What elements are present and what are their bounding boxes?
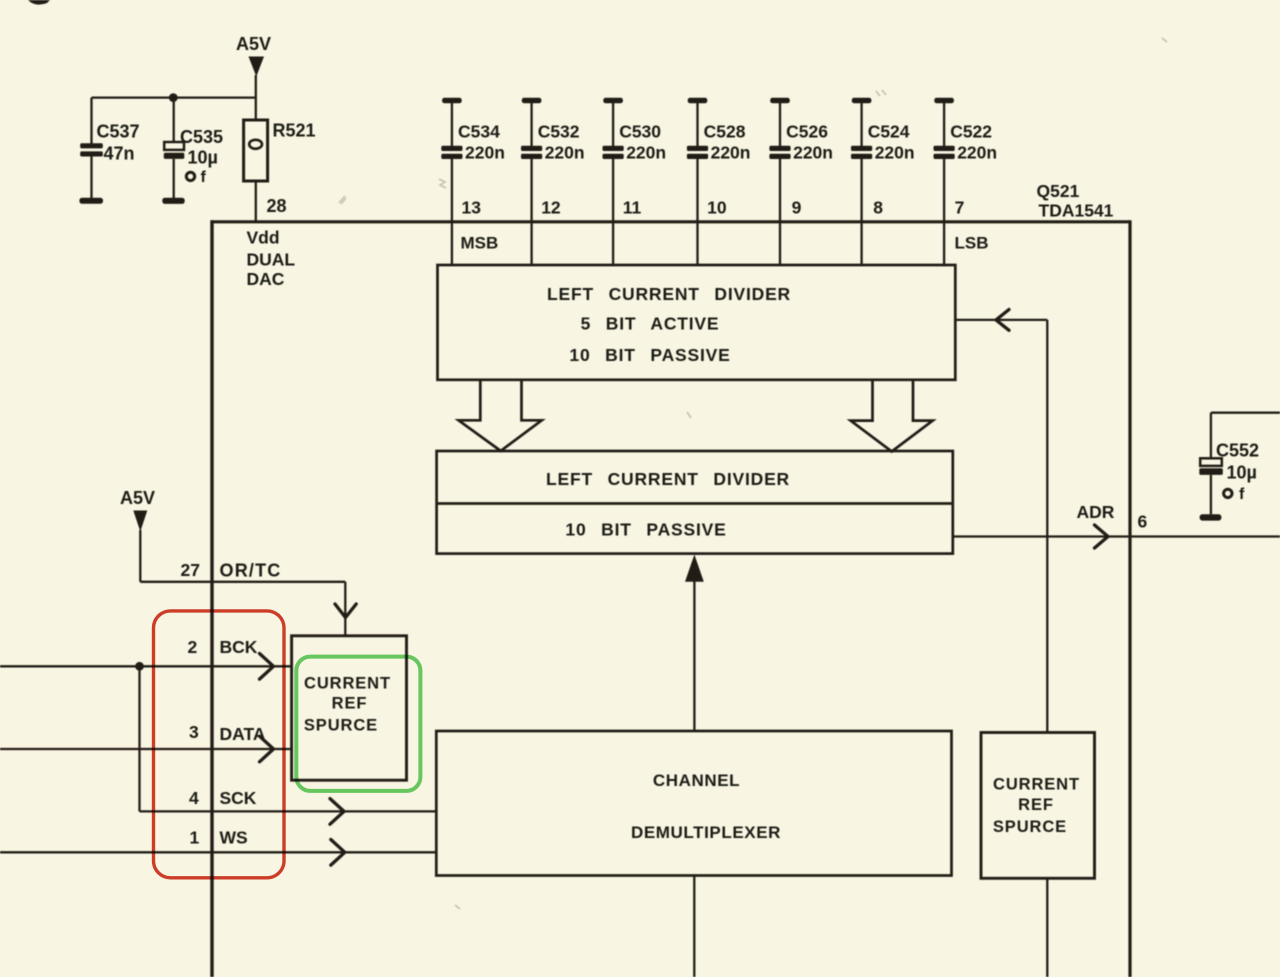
- capacitor C534 pin 13: [441, 98, 505, 265]
- svg-text:DUAL: DUAL: [247, 250, 296, 270]
- svg-text:SPURCE: SPURCE: [304, 717, 378, 735]
- svg-text:C528: C528: [704, 121, 746, 141]
- ground bar C552: [1200, 514, 1222, 520]
- svg-text:f: f: [201, 169, 207, 186]
- wire feedback into divider right side: [955, 319, 1047, 321]
- svg-text:SCK: SCK: [220, 788, 257, 808]
- svg-text:Vdd: Vdd: [247, 228, 280, 248]
- label Q521 TDA1541: [1037, 181, 1114, 221]
- svg-text:C534: C534: [458, 121, 500, 141]
- svg-text:LEFT CURRENT DIVIDER: LEFT CURRENT DIVIDER: [547, 284, 791, 304]
- chevron arrow pointing right (ADR): [1095, 525, 1109, 548]
- capacitor C524 pin 8: [851, 98, 915, 265]
- svg-text:11: 11: [623, 198, 642, 218]
- svg-text:DEMULTIPLEXER: DEMULTIPLEXER: [631, 823, 781, 842]
- svg-text:TDA1541: TDA1541: [1039, 201, 1114, 221]
- svg-text:REF: REF: [1018, 796, 1054, 814]
- wire SCK from BCK node: [140, 666, 437, 811]
- power symbol A5V (lower): [120, 488, 155, 532]
- svg-text:9: 9: [792, 198, 802, 218]
- wire ADR output: [953, 535, 1280, 537]
- block: left current divider 5 bit active / 10 bit passive: [438, 265, 956, 380]
- chevron arrow SCK: [330, 799, 344, 825]
- svg-text:f: f: [1239, 486, 1245, 503]
- svg-text:28: 28: [267, 196, 287, 216]
- svg-text:220n: 220n: [875, 143, 915, 163]
- svg-text:A5V: A5V: [236, 34, 271, 54]
- svg-text:DAC: DAC: [247, 269, 285, 289]
- block: left current divider 10 bit passive: [437, 451, 953, 554]
- svg-text:CURRENT: CURRENT: [304, 675, 391, 693]
- svg-text:C535: C535: [180, 127, 223, 147]
- svg-text:LEFT CURRENT DIVIDER: LEFT CURRENT DIVIDER: [546, 469, 790, 489]
- svg-text:C522: C522: [950, 121, 992, 141]
- svg-text:SPURCE: SPURCE: [993, 818, 1067, 836]
- svg-text:6: 6: [1138, 512, 1148, 532]
- svg-text:C526: C526: [786, 121, 828, 141]
- svg-text:7: 7: [955, 198, 965, 218]
- svg-text:13: 13: [462, 198, 482, 218]
- svg-text:ADR: ADR: [1077, 502, 1115, 522]
- svg-text:220n: 220n: [711, 143, 751, 163]
- wire ref source (right) to bottom: [1046, 878, 1048, 977]
- svg-text:1: 1: [190, 828, 200, 848]
- svg-text:REF: REF: [332, 695, 368, 713]
- svg-text:10 BIT PASSIVE: 10 BIT PASSIVE: [569, 345, 730, 365]
- faint scan smudges: [339, 38, 1167, 909]
- svg-text:10µ: 10µ: [188, 148, 218, 168]
- capacitor C532 pin 12: [521, 98, 585, 265]
- svg-text:47n: 47n: [104, 144, 135, 164]
- red highlight box around serial input pins: [154, 611, 285, 878]
- chevron arrow WS: [331, 840, 345, 866]
- svg-text:Q521: Q521: [1037, 181, 1080, 201]
- power symbol A5V (top): [236, 34, 271, 77]
- svg-text:R521: R521: [273, 121, 316, 141]
- capacitor C530 pin 11: [603, 98, 667, 265]
- capacitor C526 pin 9: [769, 98, 833, 265]
- chevron arrow DATA: [260, 736, 274, 762]
- chevron arrow pointing left: [996, 310, 1009, 331]
- capacitor C522 pin 7: [934, 98, 998, 265]
- svg-text:C537: C537: [97, 122, 140, 142]
- wire DATA input: [0, 748, 292, 750]
- capacitor C535 10u electrolytic: [164, 98, 223, 199]
- block: channel demultiplexer: [436, 731, 951, 876]
- arrow into 10-bit passive block from demultiplexer: [685, 555, 704, 732]
- svg-text:LSB: LSB: [955, 234, 989, 253]
- svg-text:BCK: BCK: [220, 637, 258, 657]
- wire demultiplexer output (bottom): [693, 876, 695, 977]
- svg-text:OR/TC: OR/TC: [220, 561, 282, 581]
- wire A5V to OR/TC pin 27: [140, 530, 345, 636]
- svg-text:C530: C530: [619, 121, 661, 141]
- wire A5V to R521: [255, 75, 257, 120]
- svg-text:220n: 220n: [626, 143, 666, 163]
- svg-text:220n: 220n: [545, 143, 585, 163]
- svg-text:27: 27: [181, 560, 200, 580]
- stray ink mark top-left: [28, 0, 50, 5]
- chevron arrow pointing down: [335, 604, 356, 618]
- ground bar C537: [79, 198, 103, 204]
- chevron arrow BCK: [260, 654, 274, 680]
- svg-text:10 BIT PASSIVE: 10 BIT PASSIVE: [565, 520, 726, 540]
- svg-text:220n: 220n: [957, 143, 997, 163]
- block: current ref source (left): [292, 636, 407, 780]
- svg-text:220n: 220n: [465, 143, 505, 163]
- svg-text:4: 4: [189, 788, 199, 808]
- capacitor C552 10u electrolytic (right): [1199, 413, 1280, 515]
- pin name Vdd DUAL DAC: [247, 228, 296, 290]
- svg-text:A5V: A5V: [120, 488, 155, 508]
- wire horizontal bypass rail y=97.6: [92, 96, 256, 98]
- hollow flow arrow left: [459, 381, 542, 451]
- hollow flow arrow right: [851, 381, 933, 452]
- svg-text:C532: C532: [538, 121, 580, 141]
- svg-text:2: 2: [188, 637, 198, 657]
- svg-text:220n: 220n: [793, 143, 833, 163]
- wire vertical bus to current ref source (right): [1046, 320, 1048, 733]
- ground bar C535: [162, 198, 184, 204]
- capacitor C528 pin 10: [687, 98, 751, 265]
- svg-text:C524: C524: [868, 121, 910, 141]
- wire BCK input: [0, 665, 292, 667]
- node junction dot: [169, 93, 178, 102]
- svg-text:8: 8: [873, 198, 883, 218]
- wire WS input: [0, 851, 436, 853]
- svg-text:10µ: 10µ: [1227, 463, 1257, 483]
- svg-text:5 BIT ACTIVE: 5 BIT ACTIVE: [581, 314, 720, 334]
- svg-text:12: 12: [541, 198, 561, 218]
- svg-text:3: 3: [189, 722, 199, 742]
- green highlight box around current ref source: [296, 657, 420, 791]
- svg-text:C552: C552: [1216, 441, 1259, 461]
- svg-text:DATA: DATA: [220, 724, 266, 744]
- svg-text:CHANNEL: CHANNEL: [653, 771, 740, 790]
- svg-text:10: 10: [707, 198, 727, 218]
- svg-text:MSB: MSB: [461, 234, 499, 253]
- IC Q521 TDA1541 outline: [211, 220, 1131, 977]
- svg-text:CURRENT: CURRENT: [993, 776, 1080, 794]
- node junction dot BCK: [135, 662, 144, 671]
- svg-text:WS: WS: [220, 828, 248, 848]
- resistor R521: [244, 120, 316, 181]
- capacitor C537 47n: [80, 98, 139, 199]
- wire R521 to pin 28: [255, 181, 257, 222]
- block: current ref source (right): [981, 733, 1095, 879]
